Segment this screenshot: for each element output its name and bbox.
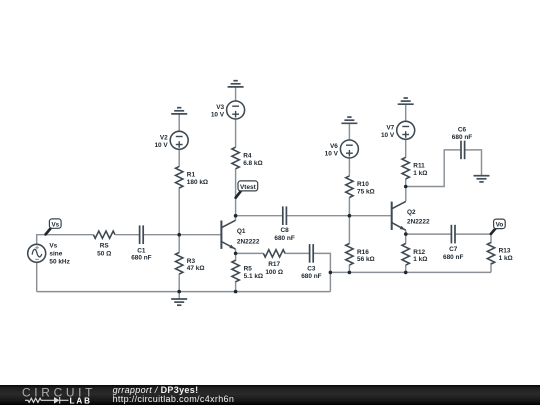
transistor Q1 <box>221 220 235 249</box>
svg-text:1 kΩ: 1 kΩ <box>499 255 513 262</box>
wire V3 ground stub <box>235 87 237 101</box>
wire R5 top <box>235 253 237 261</box>
resistor RS <box>93 231 115 238</box>
wire Q1 collector stub <box>235 216 237 221</box>
svg-text:680 nF: 680 nF <box>452 134 472 141</box>
junction C3 branch low rail <box>329 271 333 275</box>
voltage source Vs (sine) <box>28 244 46 262</box>
resistor R5 <box>232 260 239 282</box>
svg-text:C7: C7 <box>449 246 458 253</box>
wire V6 to R10 <box>348 158 350 176</box>
wire emitter rail to C7 <box>406 233 452 235</box>
svg-text:Q2: Q2 <box>407 209 416 216</box>
svg-text:R11: R11 <box>413 163 425 170</box>
resistor R11 <box>402 157 409 179</box>
wire C6 right to ground <box>466 150 482 176</box>
wire R12 top <box>405 234 407 244</box>
wire Vs bottom <box>36 262 38 291</box>
junction Q2 emitter <box>404 232 408 236</box>
wire V2 to R1 <box>178 149 180 167</box>
wire Q2 emitter stub <box>405 230 407 234</box>
wire base rail to R3 <box>178 235 180 253</box>
wire bottom ground stub <box>178 292 180 299</box>
wire C1 to Q1 base <box>143 234 221 236</box>
svg-text:10 V: 10 V <box>211 112 225 119</box>
voltage source V6 <box>340 140 358 158</box>
wire Vs top to RS <box>37 235 93 245</box>
voltage source V3 <box>227 101 245 119</box>
wire R5 bottom <box>235 281 237 292</box>
ground above V6 <box>341 117 357 123</box>
svg-text:2N2222: 2N2222 <box>407 218 430 225</box>
svg-text:10 V: 10 V <box>325 151 339 158</box>
junction R5 bottom <box>234 290 238 294</box>
svg-text:10 V: 10 V <box>154 142 168 149</box>
svg-text:5.1 kΩ: 5.1 kΩ <box>244 273 263 280</box>
flag Vs <box>46 219 62 235</box>
junction Q2 collector R11 <box>404 185 408 189</box>
ground above V3 <box>228 81 244 87</box>
svg-text:1 kΩ: 1 kΩ <box>413 256 427 263</box>
wire V6 ground stub <box>348 123 350 140</box>
wire emitter rail to R17 <box>236 252 264 254</box>
junction ground rail <box>177 290 181 294</box>
ground above V2 <box>171 108 187 114</box>
footer bar <box>0 385 540 405</box>
svg-text:C6: C6 <box>458 126 467 133</box>
svg-text:Vs: Vs <box>51 222 59 229</box>
svg-text:RS: RS <box>100 242 110 249</box>
capacitor C1 <box>140 225 144 244</box>
svg-text:V3: V3 <box>216 104 224 111</box>
svg-text:680 nF: 680 nF <box>274 235 294 242</box>
svg-text:6.8 kΩ: 6.8 kΩ <box>243 160 262 167</box>
resistor R13 <box>487 242 494 264</box>
junction base rail / R3 <box>177 233 181 237</box>
svg-text:10 V: 10 V <box>381 132 395 139</box>
wire C7 to Vo corner <box>455 234 491 243</box>
svg-text:100 Ω: 100 Ω <box>265 269 283 276</box>
ground below C6 <box>474 176 490 182</box>
svg-text:R5: R5 <box>244 266 253 273</box>
svg-text:Vo: Vo <box>496 222 504 229</box>
svg-text:50 Ω: 50 Ω <box>97 251 111 258</box>
wire V3 to R4 <box>235 119 237 147</box>
wire mid rail right of C8 <box>286 215 391 217</box>
wire R3 to bottom rail <box>178 274 180 292</box>
wire R16 bottom <box>348 265 350 273</box>
wire RS to C1 <box>115 234 139 236</box>
wire Q1 emitter stub <box>235 249 237 253</box>
wire Q2 collector stub <box>405 187 407 202</box>
wire low rail <box>330 271 491 273</box>
svg-text:2N2222: 2N2222 <box>237 239 260 246</box>
wire bottom rail <box>37 291 331 293</box>
flag Vo <box>491 219 505 234</box>
transistor Q2 <box>392 201 406 230</box>
wire R4 to collector junction <box>235 169 237 216</box>
svg-text:Vs: Vs <box>49 243 57 250</box>
junction Q1 emitter <box>234 252 238 256</box>
svg-text:R12: R12 <box>413 249 425 256</box>
svg-text:680 nF: 680 nF <box>131 255 151 262</box>
junction R10 mid rail <box>348 214 352 218</box>
svg-text:V6: V6 <box>330 143 338 150</box>
wire R13 bottom <box>490 263 492 273</box>
wire V2 ground stub <box>178 114 180 131</box>
capacitor C3 <box>310 244 314 263</box>
svg-text:R13: R13 <box>499 248 511 255</box>
wire R17 to C3 <box>285 252 310 254</box>
junction Q1 collector <box>234 214 238 218</box>
capacitor C7 <box>451 225 455 244</box>
wire junction to C6 branch <box>406 150 460 187</box>
svg-text:V2: V2 <box>160 134 168 141</box>
voltage source V7 <box>397 121 415 139</box>
svg-text:R10: R10 <box>357 181 369 188</box>
capacitor C6 <box>461 141 465 160</box>
wire V7 ground stub <box>405 104 407 121</box>
wire V7 to R11 <box>405 139 407 157</box>
resistor R12 <box>402 244 409 266</box>
svg-text:1 kΩ: 1 kΩ <box>413 170 427 177</box>
svg-text:sine: sine <box>49 251 62 258</box>
svg-text:LAB: LAB <box>70 396 92 405</box>
svg-text:V7: V7 <box>386 124 394 131</box>
capacitor C8 <box>283 206 287 225</box>
svg-text:Vtest: Vtest <box>240 184 257 191</box>
junction R16 bottom <box>348 271 352 275</box>
resistor R17 <box>263 250 285 257</box>
svg-text:C3: C3 <box>307 265 316 272</box>
svg-text:C1: C1 <box>137 247 146 254</box>
svg-text:680 nF: 680 nF <box>443 254 463 261</box>
svg-text:75 kΩ: 75 kΩ <box>357 189 375 196</box>
resistor R16 <box>346 244 353 266</box>
svg-text:50 kHz: 50 kHz <box>49 259 69 266</box>
flag Vtest <box>236 181 258 198</box>
wire mid rail left of C8 <box>236 215 283 217</box>
svg-text:47 kΩ: 47 kΩ <box>187 265 205 272</box>
ground bottom rail <box>171 299 187 305</box>
credit text <box>113 386 235 405</box>
ground above V7 <box>398 98 414 104</box>
resistor R4 <box>232 147 239 169</box>
wire R12 bottom <box>405 265 407 273</box>
voltage source V2 <box>170 131 188 149</box>
wire R10 to mid rail <box>348 197 350 215</box>
resistor R1 <box>176 166 183 188</box>
resistor R3 <box>176 252 183 274</box>
svg-text:R17: R17 <box>268 261 280 268</box>
svg-text:180 kΩ: 180 kΩ <box>187 179 208 186</box>
junction R12 bottom <box>404 271 408 275</box>
svg-text:R4: R4 <box>243 153 252 160</box>
svg-text:680 nF: 680 nF <box>301 273 321 280</box>
circuitlab logo <box>21 386 99 405</box>
svg-text:Q1: Q1 <box>237 228 246 235</box>
svg-text:R16: R16 <box>357 249 369 256</box>
svg-text:R3: R3 <box>187 258 196 265</box>
wire mid rail to R16 <box>348 216 350 244</box>
svg-text:C8: C8 <box>280 227 289 234</box>
wire C3 to corner and down <box>313 253 330 291</box>
svg-text:56 kΩ: 56 kΩ <box>357 256 375 263</box>
svg-text:R1: R1 <box>187 172 196 179</box>
resistor R10 <box>346 176 353 198</box>
wire R11 to collector junction <box>405 179 407 187</box>
wire R1 to base rail <box>178 188 180 235</box>
